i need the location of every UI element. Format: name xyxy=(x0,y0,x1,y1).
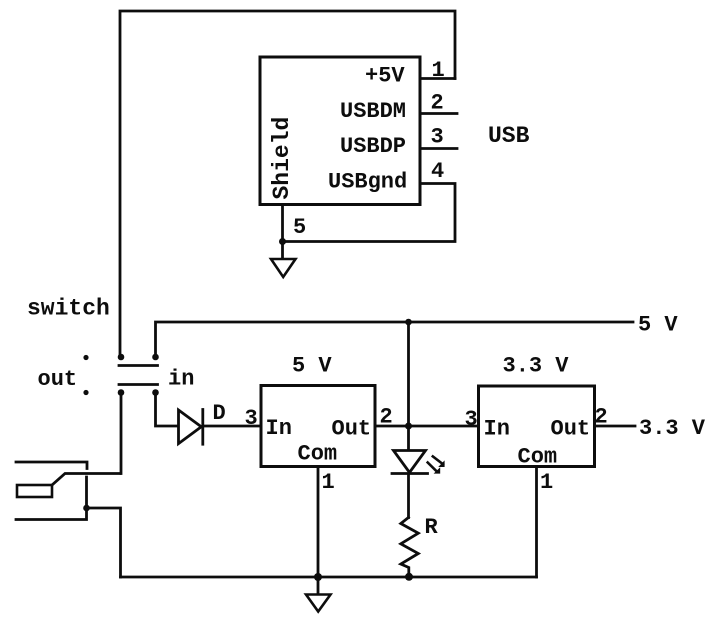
svg-text:2: 2 xyxy=(595,405,608,430)
svg-text:in: in xyxy=(168,367,194,392)
svg-text:USBgnd: USBgnd xyxy=(328,170,407,195)
svg-text:3.3 V: 3.3 V xyxy=(503,354,570,379)
svg-text:switch: switch xyxy=(27,296,110,322)
svg-text:1: 1 xyxy=(322,470,335,495)
svg-text:1: 1 xyxy=(432,58,445,83)
svg-text:Com: Com xyxy=(298,442,338,467)
svg-text:+5V: +5V xyxy=(365,64,405,89)
svg-text:In: In xyxy=(266,416,292,441)
svg-text:5 V: 5 V xyxy=(638,313,678,338)
svg-text:1: 1 xyxy=(540,470,553,495)
svg-text:3: 3 xyxy=(245,406,258,431)
svg-text:USB: USB xyxy=(488,123,530,149)
svg-text:3: 3 xyxy=(465,407,478,432)
svg-text:In: In xyxy=(484,417,510,442)
svg-text:D: D xyxy=(213,401,226,426)
svg-text:3.3 V: 3.3 V xyxy=(639,416,706,441)
svg-text:3: 3 xyxy=(431,125,444,150)
svg-text:2: 2 xyxy=(380,405,393,430)
svg-text:Com: Com xyxy=(518,445,558,470)
svg-text:5 V: 5 V xyxy=(292,354,332,379)
svg-text:4: 4 xyxy=(431,159,444,184)
svg-text:USBDM: USBDM xyxy=(340,99,406,124)
svg-text:USBDP: USBDP xyxy=(340,134,406,159)
svg-text:out: out xyxy=(38,367,78,392)
svg-text:5: 5 xyxy=(293,215,306,240)
svg-text:Shield: Shield xyxy=(269,117,295,200)
svg-text:2: 2 xyxy=(431,91,444,116)
svg-text:R: R xyxy=(425,515,439,540)
svg-text:Out: Out xyxy=(551,417,591,442)
svg-text:Out: Out xyxy=(332,417,372,442)
